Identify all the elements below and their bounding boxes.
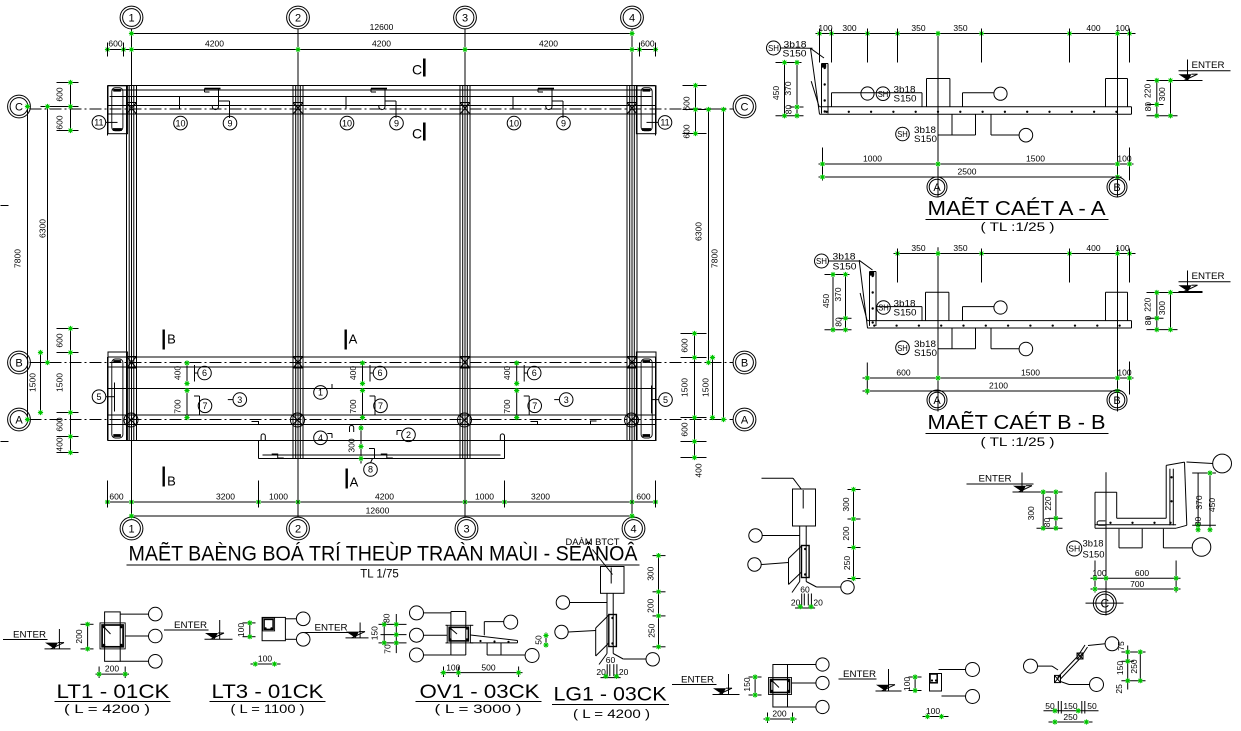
grid bubble A right bbox=[733, 408, 756, 431]
svg-text:9: 9 bbox=[227, 118, 232, 128]
svg-text:80: 80 bbox=[1042, 518, 1052, 528]
detail C channel shape bbox=[1095, 462, 1187, 528]
wall under grid 4 bbox=[627, 86, 637, 441]
svg-text:600: 600 bbox=[108, 39, 122, 49]
grid bubble 4 top bbox=[621, 6, 644, 29]
svg-text:100: 100 bbox=[1092, 568, 1106, 578]
svg-text:80: 80 bbox=[1143, 102, 1153, 112]
bottom band bay 2 callout 7 bbox=[348, 388, 387, 420]
dim 6300 right bbox=[694, 107, 712, 365]
dim 12600 bottom bbox=[129, 506, 635, 519]
top band outline bbox=[108, 86, 656, 136]
svg-text:400: 400 bbox=[694, 463, 704, 477]
svg-text:3200: 3200 bbox=[531, 492, 550, 502]
svg-text:A: A bbox=[933, 182, 941, 194]
svg-text:OV1 - 03CK: OV1 - 03CK bbox=[420, 682, 540, 703]
svg-text:8: 8 bbox=[368, 465, 373, 475]
section B-B rebar label SH wall bbox=[815, 252, 861, 273]
detail C top-right callout bbox=[1187, 454, 1232, 473]
svg-text:DAÀM BTCT: DAÀM BTCT bbox=[566, 537, 620, 548]
top band bay 1 bar 10 leader bbox=[174, 97, 188, 130]
section A-A top rebar left bbox=[832, 93, 923, 107]
bottom band bay 1 callout 6 bbox=[173, 360, 212, 386]
svg-text:5: 5 bbox=[663, 395, 668, 405]
LG dup leader circles bbox=[748, 529, 800, 571]
svg-text:350: 350 bbox=[953, 23, 967, 33]
grid bubble 2 top bbox=[287, 6, 310, 29]
column detail 1 beam section bbox=[769, 678, 792, 695]
svg-text:2100: 2100 bbox=[989, 381, 1008, 391]
section B-B top rebar right bbox=[963, 301, 1008, 321]
svg-text:100: 100 bbox=[1117, 368, 1131, 378]
svg-text:80: 80 bbox=[784, 105, 794, 115]
section cut B lower bbox=[163, 467, 176, 489]
column mark grid 1 row B bbox=[127, 357, 137, 369]
svg-text:S150: S150 bbox=[894, 94, 917, 105]
section A-A top dims bbox=[816, 23, 1136, 63]
svg-text:7: 7 bbox=[202, 401, 207, 411]
svg-text:3: 3 bbox=[237, 395, 242, 405]
grid bubble 1 top bbox=[120, 6, 143, 29]
svg-text:A: A bbox=[741, 414, 749, 426]
section B-B beam block at A bbox=[926, 292, 949, 320]
svg-text:600: 600 bbox=[55, 333, 65, 347]
grid bubble 3 top bbox=[454, 6, 477, 29]
svg-text:SH: SH bbox=[816, 256, 827, 266]
plan grid line 3 bbox=[464, 29, 466, 518]
svg-text:200: 200 bbox=[105, 664, 119, 674]
section cut A lower bbox=[346, 469, 359, 490]
svg-text:SH: SH bbox=[768, 43, 779, 53]
dim row 600/3200/1000/4200/1000/3200/600 bottom bbox=[105, 481, 658, 508]
section A-A beam block at B bbox=[1106, 79, 1128, 107]
svg-text:( L = 3000 ): ( L = 3000 ) bbox=[435, 704, 522, 716]
section A-A stirrup below slab bbox=[938, 114, 1033, 142]
svg-text:700: 700 bbox=[173, 399, 183, 413]
column mark grid 4 row C bbox=[627, 103, 637, 115]
section B-B bubble B bbox=[1107, 390, 1127, 410]
svg-text:A: A bbox=[349, 332, 358, 347]
svg-text:700: 700 bbox=[348, 399, 358, 413]
LT3 dim 100 bottom bbox=[251, 654, 281, 667]
svg-text:1500: 1500 bbox=[1021, 368, 1040, 378]
svg-text:1000: 1000 bbox=[475, 492, 494, 502]
svg-text:200: 200 bbox=[841, 526, 851, 540]
OV1 label bbox=[416, 682, 542, 716]
LG dup head rectangle bbox=[793, 489, 816, 526]
section cut C lower bbox=[412, 123, 426, 142]
svg-text:1500: 1500 bbox=[1026, 154, 1045, 164]
svg-text:300: 300 bbox=[1157, 87, 1167, 101]
section B-B left dims 450/370/80 bbox=[821, 272, 852, 333]
svg-text:( L = 4200 ): ( L = 4200 ) bbox=[64, 704, 150, 716]
section A-A centerline A bbox=[937, 34, 939, 178]
section A-A centerline B bbox=[1117, 34, 1119, 178]
svg-text:A: A bbox=[350, 475, 359, 490]
section A-A rebar label SH mid bbox=[876, 85, 916, 105]
svg-text:150: 150 bbox=[742, 677, 752, 691]
svg-text:5: 5 bbox=[96, 392, 101, 402]
svg-text:7: 7 bbox=[378, 401, 383, 411]
svg-text:1500: 1500 bbox=[28, 373, 38, 392]
svg-text:9: 9 bbox=[394, 118, 399, 128]
svg-text:( L = 4200 ): ( L = 4200 ) bbox=[573, 709, 650, 721]
plan grid line 4 bbox=[631, 29, 633, 518]
svg-text:450: 450 bbox=[1207, 498, 1217, 512]
svg-text:( TL :1/25 ): ( TL :1/25 ) bbox=[981, 437, 1055, 449]
column mark grid 2 row A bbox=[291, 413, 305, 427]
section cut C upper bbox=[412, 59, 426, 78]
section A-A title bbox=[926, 196, 1109, 234]
dim 600 600 top left bbox=[55, 80, 79, 133]
OV1 beam section bbox=[446, 625, 474, 643]
column mark grid 3 row A bbox=[458, 413, 472, 427]
svg-text:SH: SH bbox=[897, 129, 908, 139]
svg-text:20: 20 bbox=[813, 597, 823, 607]
svg-text:LT1 - 01CK: LT1 - 01CK bbox=[57, 682, 170, 703]
svg-text:2500: 2500 bbox=[958, 167, 977, 177]
OV1 leader circles left bbox=[410, 606, 451, 662]
bottom band callout 5 right bbox=[652, 386, 673, 414]
svg-text:4200: 4200 bbox=[372, 39, 391, 49]
dim row 600/4200 top bbox=[105, 39, 658, 57]
LG dup vertical bars bbox=[800, 526, 807, 582]
detail C rebar label SH bbox=[1067, 539, 1105, 561]
svg-text:C: C bbox=[741, 101, 749, 113]
svg-text:SH: SH bbox=[1068, 544, 1080, 554]
top band bay 1 top hook bbox=[205, 89, 221, 93]
svg-text:350: 350 bbox=[953, 243, 967, 253]
svg-text:200: 200 bbox=[74, 629, 84, 643]
svg-text:C: C bbox=[412, 126, 422, 142]
svg-text:6: 6 bbox=[377, 368, 382, 378]
svg-text:100: 100 bbox=[902, 677, 912, 691]
LG detail dim 60 and 20/20 bbox=[596, 655, 628, 679]
svg-text:400: 400 bbox=[1086, 243, 1100, 253]
section B-B wall bbox=[859, 260, 876, 328]
svg-text:4200: 4200 bbox=[539, 39, 558, 49]
section B-B slab bbox=[867, 321, 1131, 328]
bottom band protrusion bbox=[259, 441, 505, 459]
bottom band bay 2 callout 6 bbox=[348, 360, 387, 386]
section cut B upper bbox=[163, 330, 176, 350]
wall under grid 1 bbox=[127, 86, 137, 441]
svg-text:200: 200 bbox=[772, 709, 786, 719]
svg-text:3: 3 bbox=[463, 523, 469, 535]
bottom band bay 3 callout 7 bbox=[502, 388, 541, 420]
svg-text:10: 10 bbox=[175, 118, 185, 128]
svg-text:200: 200 bbox=[646, 598, 656, 612]
OV1 sloping slab bbox=[471, 635, 518, 643]
svg-text:600: 600 bbox=[636, 492, 650, 502]
svg-text:250: 250 bbox=[842, 556, 852, 570]
Z bar detail bent bar bbox=[1058, 645, 1088, 680]
svg-text:A: A bbox=[15, 414, 23, 426]
svg-text:100: 100 bbox=[1117, 154, 1131, 164]
svg-text:B: B bbox=[1113, 395, 1120, 407]
svg-text:1500: 1500 bbox=[680, 378, 690, 397]
svg-text:600: 600 bbox=[55, 115, 65, 129]
top band bay 3 bar 9 hook bbox=[546, 89, 571, 130]
svg-text:2: 2 bbox=[295, 12, 301, 24]
svg-text:3200: 3200 bbox=[216, 492, 235, 502]
svg-text:500: 500 bbox=[481, 662, 495, 672]
grid bubble C right bbox=[733, 95, 756, 118]
top band right end column bbox=[636, 86, 656, 134]
svg-text:10: 10 bbox=[509, 118, 519, 128]
column detail 2 leader circles bbox=[939, 663, 980, 704]
dim 600 600 top right bbox=[682, 83, 707, 139]
svg-text:450: 450 bbox=[771, 86, 781, 100]
svg-text:300: 300 bbox=[646, 566, 656, 580]
column mark grid 4 row A bbox=[625, 413, 639, 427]
svg-text:ENTER: ENTER bbox=[315, 623, 348, 634]
LG dup top leader line bbox=[762, 478, 802, 489]
section A-A bottom dims bbox=[819, 148, 1134, 198]
svg-text:TL 1/75: TL 1/75 bbox=[360, 569, 399, 581]
dim 7800 left bbox=[13, 104, 31, 422]
grid bubble 3 bottom bbox=[455, 517, 478, 540]
svg-text:1000: 1000 bbox=[863, 154, 882, 164]
LT1 dim 200 vertical bbox=[74, 622, 94, 652]
svg-text:B: B bbox=[167, 332, 176, 347]
column detail 1 outline bbox=[773, 665, 788, 708]
svg-text:25: 25 bbox=[1114, 684, 1124, 694]
grid bubble 4 bottom bbox=[622, 517, 645, 540]
svg-text:1500: 1500 bbox=[701, 378, 711, 397]
svg-text:300: 300 bbox=[347, 438, 357, 452]
svg-text:220: 220 bbox=[1143, 84, 1153, 98]
svg-text:220: 220 bbox=[1043, 496, 1053, 510]
svg-text:ENTER: ENTER bbox=[843, 669, 876, 680]
detail C bottom dims 100/600/700 bbox=[1091, 561, 1181, 593]
bottom band hooks bbox=[252, 421, 597, 458]
svg-text:100: 100 bbox=[236, 623, 246, 637]
svg-text:B: B bbox=[167, 474, 176, 489]
section A-A beam block at A bbox=[927, 79, 950, 107]
LT1 beam section bbox=[100, 623, 125, 649]
column detail 2 ENTER level mark bbox=[839, 669, 902, 691]
svg-text:80: 80 bbox=[1193, 517, 1203, 527]
grid bubble C left bbox=[8, 95, 31, 118]
Z bar detail bottom dims 50/150/50/250 bbox=[1044, 701, 1099, 725]
svg-text:400: 400 bbox=[55, 437, 65, 451]
plan title bbox=[127, 542, 640, 581]
svg-text:6300: 6300 bbox=[38, 219, 48, 238]
LT1 label bbox=[55, 682, 171, 716]
svg-text:4: 4 bbox=[318, 433, 323, 443]
detail C grid bubble C bbox=[1086, 592, 1124, 615]
svg-text:400: 400 bbox=[1086, 23, 1100, 33]
svg-text:1000: 1000 bbox=[269, 492, 288, 502]
LT3 label bbox=[210, 682, 326, 716]
svg-text:1: 1 bbox=[318, 388, 323, 398]
svg-text:1500: 1500 bbox=[55, 373, 65, 392]
bottom band right end column bbox=[636, 352, 656, 441]
LG dup bottom leader bbox=[792, 581, 854, 594]
LG dup stirrup box bbox=[802, 546, 810, 578]
dim 1500 B-A left bbox=[28, 350, 44, 415]
column detail 2 beam section bbox=[930, 674, 937, 683]
section B-B beam block at B bbox=[1106, 292, 1128, 320]
detail C stirrups below bbox=[1119, 529, 1211, 557]
svg-text:600: 600 bbox=[640, 39, 654, 49]
OV1 bottom-right leader bbox=[487, 643, 539, 663]
svg-text:4200: 4200 bbox=[375, 492, 394, 502]
svg-text:SH: SH bbox=[897, 343, 908, 353]
bottom band callout 3 bay3 bbox=[554, 393, 573, 407]
svg-text:B: B bbox=[15, 357, 22, 369]
svg-text:100: 100 bbox=[446, 662, 460, 672]
OV1 ENTER level mark bbox=[305, 623, 369, 638]
LG detail bottom leader bbox=[599, 653, 659, 666]
plan grid line A bbox=[30, 419, 734, 421]
column detail 1 ENTER level mark bbox=[672, 674, 740, 695]
plan grid line 1 bbox=[131, 29, 133, 518]
Z bar detail right dims 75/150/25/250 bbox=[1114, 641, 1146, 694]
bottom band callout 3 bay1 bbox=[228, 393, 247, 407]
LG detail head rectangle bbox=[601, 567, 625, 594]
section B-B right dims 220/300/80 bbox=[1143, 290, 1203, 332]
OV1 left dims 80/150/70 bbox=[370, 613, 407, 653]
svg-text:3: 3 bbox=[462, 12, 468, 24]
svg-text:A: A bbox=[933, 395, 941, 407]
LG dup flag bbox=[789, 546, 802, 585]
svg-text:60: 60 bbox=[606, 655, 616, 665]
svg-text:370: 370 bbox=[833, 287, 843, 301]
svg-text:150: 150 bbox=[1063, 701, 1077, 711]
section A-A bubble A bbox=[927, 177, 947, 197]
svg-text:700: 700 bbox=[1130, 579, 1144, 589]
section cut A upper bbox=[345, 330, 358, 350]
svg-text:ENTER: ENTER bbox=[174, 620, 207, 631]
column mark grid 1 row A bbox=[124, 413, 138, 427]
section A-A rebar label SH wall bbox=[767, 40, 813, 60]
svg-text:C: C bbox=[412, 62, 422, 78]
section A-A bubble B bbox=[1107, 177, 1127, 197]
section A-A slab bbox=[820, 107, 1132, 114]
LG dup right dims 300/200/250 bbox=[841, 487, 861, 581]
plan grid line B bbox=[30, 362, 734, 364]
svg-text:S150: S150 bbox=[894, 307, 917, 318]
svg-text:370: 370 bbox=[783, 81, 793, 95]
bottom band callout 8 bbox=[347, 425, 378, 477]
svg-text:600: 600 bbox=[55, 417, 65, 431]
svg-text:4: 4 bbox=[629, 12, 635, 24]
svg-text:600: 600 bbox=[682, 124, 692, 138]
detail C wall rebar bbox=[1170, 469, 1173, 526]
svg-text:80: 80 bbox=[1143, 316, 1153, 326]
svg-text:3b18: 3b18 bbox=[1083, 539, 1104, 550]
svg-text:1: 1 bbox=[128, 523, 134, 535]
svg-text:ENTER: ENTER bbox=[1192, 271, 1225, 282]
svg-text:4200: 4200 bbox=[205, 39, 224, 49]
section A-A ENTER level mark bbox=[1179, 60, 1231, 81]
dim 12600 top bbox=[129, 22, 635, 36]
svg-text:250: 250 bbox=[1063, 712, 1077, 722]
section B-B centerline A bbox=[937, 247, 939, 390]
svg-text:( TL :1/25 ): ( TL :1/25 ) bbox=[981, 222, 1055, 234]
svg-text:100: 100 bbox=[258, 654, 272, 664]
svg-text:2: 2 bbox=[295, 523, 301, 535]
svg-text:S150: S150 bbox=[1083, 550, 1105, 561]
plan grid line 2 bbox=[297, 29, 299, 518]
svg-text:600: 600 bbox=[680, 422, 690, 436]
svg-text:12600: 12600 bbox=[366, 506, 390, 516]
grid bubble 1 bottom bbox=[120, 517, 143, 540]
section B-B stirrup below slab bbox=[938, 328, 1033, 356]
plan grid line C bbox=[30, 108, 734, 110]
section B-B centerline B bbox=[1117, 247, 1119, 390]
svg-text:B: B bbox=[1113, 182, 1120, 194]
bottom band bay 3 callout 6 bbox=[502, 360, 541, 386]
rebar callout 11 right bbox=[647, 116, 672, 130]
Z bar detail section squares bbox=[1055, 653, 1084, 683]
svg-text:1: 1 bbox=[128, 12, 134, 24]
svg-text:ENTER: ENTER bbox=[1192, 60, 1225, 71]
column mark grid 1 row C bbox=[127, 103, 137, 115]
LG detail flag bbox=[596, 615, 609, 656]
LG dup dim 60 and 20/20 bbox=[791, 585, 823, 610]
svg-text:12600: 12600 bbox=[370, 22, 394, 32]
LG detail vertical bars bbox=[607, 593, 613, 653]
section A-A top rebar right bbox=[963, 87, 1008, 107]
svg-text:C: C bbox=[15, 101, 23, 113]
svg-text:75: 75 bbox=[1116, 641, 1126, 651]
column detail 2 dim 100 bbox=[902, 674, 922, 693]
svg-text:300: 300 bbox=[841, 497, 851, 511]
detail C centerline bbox=[1105, 472, 1107, 615]
Z bar detail leader circles bbox=[1024, 637, 1120, 692]
left margin marks bbox=[1, 206, 9, 442]
grid bubble B left bbox=[8, 351, 31, 374]
svg-text:ENTER: ENTER bbox=[979, 474, 1012, 485]
LG1 label bbox=[552, 685, 669, 722]
svg-text:600: 600 bbox=[1135, 568, 1149, 578]
svg-text:11: 11 bbox=[660, 118, 669, 128]
column mark grid 2 row C bbox=[293, 103, 303, 115]
LT3 slab outline bbox=[262, 617, 285, 640]
section A-A rebar callout circle bbox=[861, 87, 874, 100]
svg-text:50: 50 bbox=[534, 635, 544, 645]
svg-text:S150: S150 bbox=[833, 262, 857, 273]
svg-text:350: 350 bbox=[911, 243, 925, 253]
detail C right dims 370/450/80 bbox=[1192, 470, 1217, 532]
top band bay 1 bar 9 hook bbox=[212, 89, 237, 130]
section A-A left dims 450/370/80 bbox=[771, 60, 804, 119]
svg-text:250: 250 bbox=[1129, 659, 1139, 673]
svg-text:20: 20 bbox=[619, 667, 629, 677]
svg-text:7800: 7800 bbox=[13, 249, 23, 268]
section B-B ENTER level mark bbox=[1179, 271, 1231, 292]
bottom band outline bbox=[108, 357, 656, 441]
svg-text:MAẼT CAÉT B - B: MAẼT CAÉT B - B bbox=[928, 410, 1106, 434]
top band bay 3 top hook bbox=[538, 89, 554, 93]
svg-text:LT3 - 01CK: LT3 - 01CK bbox=[212, 682, 324, 703]
column detail 1 dim 200 bbox=[764, 709, 797, 724]
OV1 bottom dims 100/500 bbox=[441, 662, 523, 677]
section B-B top rebar left bbox=[876, 307, 922, 321]
LG detail leader circles bbox=[555, 596, 607, 639]
svg-text:11: 11 bbox=[94, 118, 103, 128]
svg-text:600: 600 bbox=[109, 492, 123, 502]
LT1 ENTER level mark bbox=[3, 629, 71, 649]
OV1 column outline bbox=[451, 612, 466, 656]
LT3 ENTER level mark bbox=[164, 620, 233, 639]
svg-text:S150: S150 bbox=[914, 134, 937, 145]
top band bay 2 top hook bbox=[371, 89, 387, 93]
svg-text:7800: 7800 bbox=[710, 249, 720, 268]
